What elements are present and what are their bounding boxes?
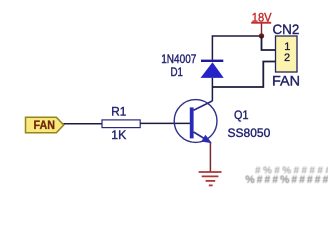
wire: R1 to Q1 base bbox=[140, 122, 190, 124]
wire: 18V node to CN2 pin 1 bbox=[262, 36, 276, 50]
power 18V bbox=[251, 10, 271, 34]
port FAN bbox=[26, 117, 64, 132]
wire: diode cathode up and over to 18V node bbox=[212, 36, 261, 60]
svg-text:1K: 1K bbox=[111, 128, 126, 142]
connector CN2 bbox=[276, 36, 298, 72]
wire: collector to diode anode node bbox=[211, 78, 213, 101]
svg-text:FAN: FAN bbox=[34, 118, 56, 132]
svg-text:1: 1 bbox=[284, 41, 290, 53]
wire: FAN port to R1 bbox=[64, 123, 103, 125]
svg-text:1N4007: 1N4007 bbox=[161, 52, 196, 66]
diode D1 bbox=[201, 60, 224, 78]
svg-text:Q1: Q1 bbox=[234, 108, 249, 122]
transistor Q1 bbox=[174, 100, 217, 144]
svg-text:SS8050: SS8050 bbox=[228, 126, 271, 140]
svg-text:2: 2 bbox=[284, 52, 290, 64]
svg-text:FAN: FAN bbox=[272, 72, 300, 88]
svg-text:CN2: CN2 bbox=[273, 21, 300, 37]
resistor R1 bbox=[102, 120, 140, 128]
wire: CN2 pin 2 to collector node bbox=[212, 62, 275, 88]
svg-text:R1: R1 bbox=[111, 105, 126, 119]
junction: 18V node bbox=[259, 33, 264, 38]
svg-text:D1: D1 bbox=[171, 65, 184, 79]
wire: Q1 emitter to ground bbox=[209, 143, 211, 172]
svg-text:%###%#####: %###%##### bbox=[245, 174, 328, 186]
watermark bbox=[245, 165, 328, 186]
ground bbox=[199, 172, 222, 185]
